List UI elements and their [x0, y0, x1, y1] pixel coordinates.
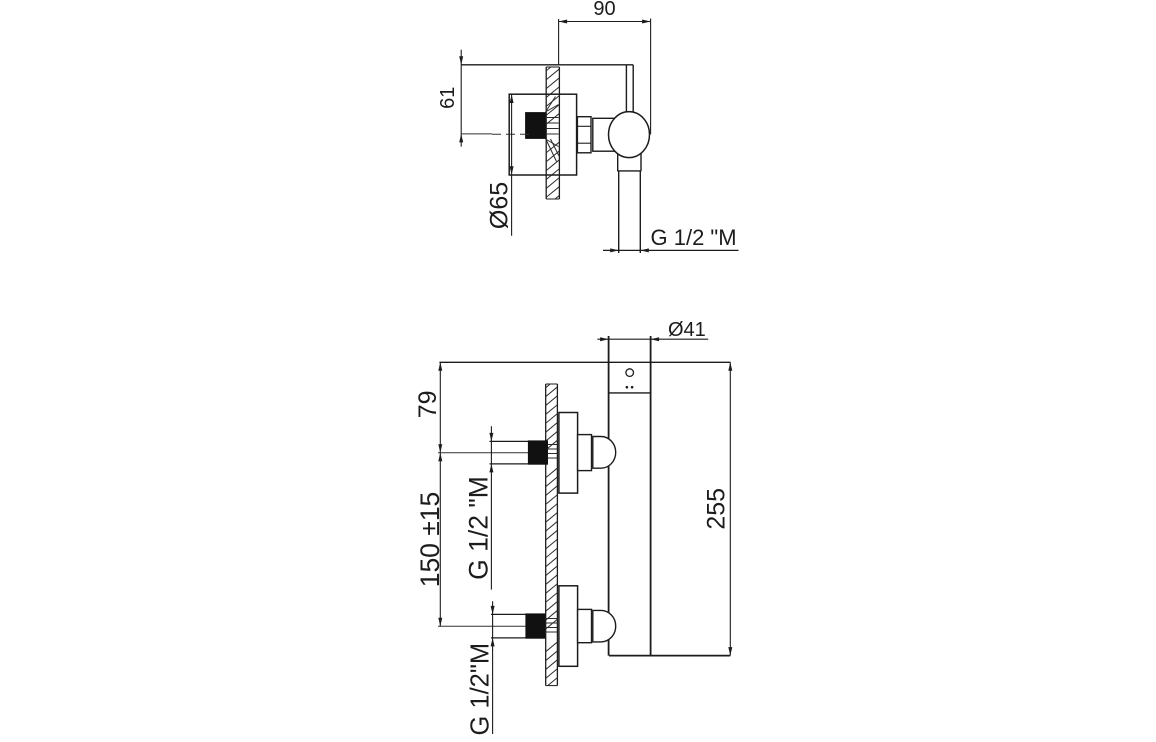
- svg-text:255: 255: [703, 488, 731, 530]
- svg-text:G 1/2"M: G 1/2"M: [466, 643, 494, 736]
- svg-text:90: 90: [593, 0, 615, 20]
- svg-text:61: 61: [437, 87, 459, 109]
- svg-text:G 1/2 "M: G 1/2 "M: [651, 225, 737, 250]
- svg-text:Ø41: Ø41: [668, 319, 706, 341]
- svg-text:150 ±15: 150 ±15: [415, 492, 445, 588]
- svg-text:Ø65: Ø65: [486, 182, 514, 229]
- svg-text:79: 79: [414, 390, 442, 418]
- svg-text:G 1/2 "M: G 1/2 "M: [464, 476, 494, 580]
